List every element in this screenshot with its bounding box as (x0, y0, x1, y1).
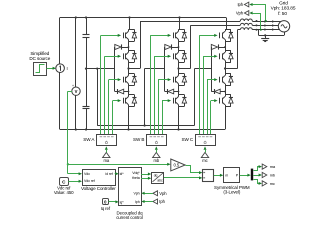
wire clamp column leg A (114, 47, 116, 92)
IGBT Q2 leg A (123, 53, 125, 59)
gate wire g4 leg A (112, 101, 114, 135)
svg-text:SW A: SW A (83, 137, 95, 142)
svg-text:Vdc: Vdc (84, 172, 90, 176)
svg-text:Vdq*: Vdq* (132, 171, 140, 175)
wire A feed from DC+ bus (129, 18, 131, 30)
IGBT Q3 leg B (173, 77, 175, 83)
wire Iph to dq block (144, 201, 153, 203)
wire phase A inductor to grid (252, 21, 281, 23)
svg-text:SW C: SW C (182, 137, 194, 142)
goto tag ma (262, 164, 267, 169)
neutral riser leg B (144, 69, 146, 126)
IGBT Q2 leg C (219, 53, 221, 59)
svg-text:id ref: id ref (105, 172, 112, 176)
ground (265, 35, 267, 38)
svg-text:theta: theta (132, 176, 140, 180)
measure arrows phase A (264, 20, 267, 23)
svg-text:current control: current control (116, 215, 143, 220)
svg-text:ma: ma (103, 158, 109, 163)
wire mux to PWM (214, 175, 221, 177)
wire A Q3-Q4 link (128, 85, 130, 94)
wire dq-abc to mux (164, 177, 199, 179)
wire phase C output (225, 68, 238, 70)
wire B Q3-Q4 link (178, 85, 180, 94)
inductor LA (240, 19, 244, 21)
constant C block Vdc ref (60, 178, 69, 186)
svg-text:id*: id* (120, 172, 125, 176)
goto tag Iph (244, 2, 248, 7)
wire Vph measurement (253, 13, 261, 15)
svg-text:ma: ma (270, 164, 276, 169)
svg-text:Iph: Iph (135, 200, 140, 204)
clamp diode D1 leg A (115, 44, 121, 49)
neutral wire caps midpoint (86, 68, 115, 70)
svg-text:mb: mb (270, 173, 276, 178)
wire phase B output (179, 68, 191, 70)
clamp diode D2 leg C (211, 91, 214, 93)
wire phase A output (129, 68, 141, 70)
wire C Q1-Q2 link (225, 41, 227, 50)
wire V output green (68, 91, 72, 93)
wire A Q4 to DC- bus (128, 106, 130, 129)
grid voltage source (278, 21, 289, 32)
wire demux to mc (254, 180, 260, 184)
neutral riser leg C (194, 69, 196, 126)
wire B phase-Q3 link (178, 69, 180, 74)
gate wire g3 leg C (207, 80, 209, 135)
svg-text:Grid: Grid (279, 0, 288, 6)
svg-text:Iph: Iph (159, 199, 165, 204)
svg-text:Voltage Controller: Voltage Controller (81, 186, 116, 191)
capacitor C1 (83, 34, 90, 36)
step source block (Simplified DC source) (34, 63, 47, 76)
block Decoupled dq current control (119, 168, 142, 206)
svg-text:mc: mc (202, 158, 207, 163)
wire C phase-Q3 link (225, 69, 227, 74)
IGBT Q1 leg A (123, 33, 125, 39)
wire C Q2-phase link (225, 62, 227, 68)
from tag mb (153, 152, 160, 157)
IGBT Q1 leg B (173, 33, 175, 39)
wire A Q1-Q2 link (128, 41, 130, 50)
demux (251, 169, 253, 181)
svg-text:Vph: Vph (159, 191, 167, 196)
goto tag Vph (244, 11, 248, 16)
IGBT Q4 leg B (173, 98, 175, 104)
wire phase C inductor to grid (252, 29, 279, 31)
neutral bus (97, 125, 194, 127)
block dq-abc transform (152, 173, 164, 184)
subsystem SW B (147, 135, 167, 146)
wire phase B inductor to grid (252, 25, 278, 27)
gate wire g4 leg C (210, 101, 212, 135)
wire C to controller (68, 181, 79, 183)
wire theta to dq-abc (141, 178, 148, 180)
wire id ref (115, 173, 116, 175)
svg-text:Vdc ref: Vdc ref (84, 179, 95, 183)
gate wire g1 leg C (199, 35, 201, 134)
svg-text:V: V (75, 89, 78, 94)
from tag mc (201, 152, 208, 157)
wire clamp column leg B (164, 47, 166, 92)
inductor LB (240, 23, 244, 25)
wire A Q2-phase link (128, 62, 130, 68)
svg-text:Iq ref: Iq ref (101, 206, 111, 211)
from tag ma (103, 152, 110, 157)
svg-text:Vph: Vph (236, 11, 244, 16)
gain 0.5 (171, 159, 185, 171)
svg-text:DC source: DC source (29, 56, 50, 61)
wire grid source to ground (284, 32, 286, 35)
top DC+ bus (60, 17, 226, 19)
svg-text:dq: dq (154, 174, 158, 178)
block Voltage Controller (83, 170, 116, 186)
svg-text:Vph: 183.85: Vph: 183.85 (271, 6, 296, 12)
goto tag mc (262, 181, 267, 186)
svg-text:mb: mb (153, 158, 159, 163)
wire demux to mb (253, 175, 259, 177)
svg-text:I: I (66, 66, 67, 71)
wire PWM to demux (240, 175, 248, 177)
wire phase C to inductor (238, 29, 241, 31)
voltage measurement V (72, 87, 80, 95)
svg-text:m: m (225, 174, 228, 178)
svg-text:abc: abc (157, 178, 163, 182)
wire gain to mux (186, 166, 200, 173)
gate wire g2 leg B (154, 56, 156, 134)
svg-text:f: 50: f: 50 (278, 11, 287, 17)
wire Vdc to gain (68, 164, 168, 166)
wire B Q4 to DC- bus (178, 106, 180, 129)
gate wire g2 leg A (104, 56, 106, 134)
IGBT Q4 leg C (219, 98, 221, 104)
wire Iq ref (109, 201, 116, 203)
clamp diode D2 leg A (115, 91, 118, 93)
inductor LC (240, 28, 244, 30)
gate wire g2 leg C (203, 56, 205, 134)
svg-text:Value: 450: Value: 450 (54, 190, 74, 195)
gate wire g1 leg B (150, 35, 152, 134)
capacitor C2 (83, 106, 90, 108)
clamp diode D2 leg B (165, 91, 168, 93)
wire C Q4 to DC- bus (225, 106, 227, 129)
from tag Iph (153, 199, 158, 204)
gate wire g3 leg A (108, 80, 110, 135)
mux block (203, 170, 214, 182)
measure arrows phase B (264, 24, 267, 27)
wire demux to ma (254, 167, 260, 171)
wire A phase-Q3 link (128, 69, 130, 74)
wire phase B to inductor (191, 25, 241, 27)
wire step to current source (46, 68, 53, 70)
from tag Vph (153, 191, 158, 196)
subsystem SW A (97, 135, 117, 146)
wire Vph to dq block (144, 193, 153, 195)
wire Vdc to controller (68, 173, 79, 175)
wire B feed from DC+ bus (179, 18, 181, 30)
svg-text:+: + (72, 84, 74, 88)
svg-text:0.5: 0.5 (173, 163, 179, 168)
block Symmetrical PWM (224, 168, 240, 183)
svg-text:Iph: Iph (237, 2, 243, 7)
constant 0 block Iq ref (103, 199, 109, 205)
IGBT Q4 leg A (123, 98, 125, 104)
wire Iph measurement (253, 4, 266, 6)
measure arrows phase C (264, 28, 267, 31)
gate wire g1 leg A (100, 35, 102, 134)
subsystem SW C (196, 135, 216, 146)
junction dots top bus (75, 16, 77, 18)
svg-text:iq*: iq* (120, 200, 125, 204)
clamp diode D1 leg B (165, 44, 171, 49)
svg-text:Vph: Vph (133, 192, 139, 196)
wire clamp column leg C (211, 47, 213, 92)
gate wire g3 leg B (158, 80, 160, 135)
wire Vdq* to dq-abc (141, 174, 148, 176)
wire C Q3-Q4 link (225, 85, 227, 94)
bottom DC- bus (60, 129, 225, 131)
wire V branch vertical (75, 18, 77, 88)
neutral drop (97, 69, 99, 126)
wire B Q2-phase link (178, 62, 180, 68)
goto tag mb (262, 172, 267, 177)
IGBT Q3 leg C (219, 77, 221, 83)
capacitor branch vertical (86, 18, 88, 35)
wire B Q1-Q2 link (178, 41, 180, 50)
clamp diode D1 leg C (211, 44, 217, 49)
svg-text:SW B: SW B (133, 137, 144, 142)
IGBT Q2 leg B (173, 53, 175, 59)
IGBT Q1 leg C (219, 33, 221, 39)
svg-text:(3-Level): (3-Level) (223, 190, 240, 195)
wire C feed from DC+ bus (226, 18, 228, 30)
green junction Vdc (67, 163, 69, 165)
wire phase A to inductor (140, 21, 240, 23)
svg-text:mc: mc (270, 181, 275, 186)
gate wire g4 leg B (162, 101, 164, 135)
junction dots bottom bus (75, 128, 77, 130)
IGBT Q3 leg A (123, 77, 125, 83)
DC current source I (59, 18, 61, 65)
